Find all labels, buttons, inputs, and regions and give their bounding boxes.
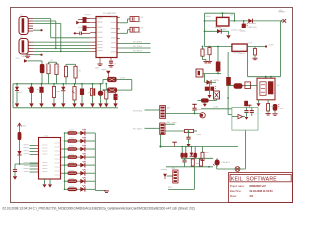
supply VCC arrow <box>16 58 43 63</box>
wire to 3.3V regulator <box>205 46 232 48</box>
resistor R10 <box>18 127 22 140</box>
node X2 unconnected pin <box>33 54 43 56</box>
wire vertical 2 <box>55 21 57 48</box>
svg-text:02.03.2008 11:04:34: 02.03.2008 11:04:34 <box>250 190 274 193</box>
supply +3.3V arrow <box>18 123 26 127</box>
diode D6 <box>217 29 221 34</box>
svg-text:PHL ACT: PHL ACT <box>222 161 231 164</box>
transistor Q7 <box>213 158 231 167</box>
wire SV1 out <box>166 113 200 115</box>
caption <box>3 207 195 211</box>
connector X1 <box>19 14 33 34</box>
resistor R12 <box>185 129 198 132</box>
resistor R14 <box>191 158 194 166</box>
pushbutton S1 <box>235 167 240 172</box>
capacitor C11 <box>207 46 212 63</box>
connector SV1 <box>160 106 171 119</box>
capacitor C2 <box>83 26 91 32</box>
voltage regulator IC4 LM1117 <box>232 42 253 55</box>
ground osc left pin <box>257 100 261 107</box>
capacitor C7 <box>108 61 116 67</box>
jumper JP3 <box>198 98 217 106</box>
capacitor C15 <box>216 46 221 74</box>
svg-text:MCB2300-v47: MCB2300-v47 <box>250 185 267 188</box>
svg-text:P0_RTS1: P0_RTS1 <box>133 51 143 53</box>
wire analog rail A <box>13 80 107 108</box>
wire LED bus right <box>95 133 105 190</box>
svg-text:C7: C7 <box>114 64 116 66</box>
svg-text:+3.3V: +3.3V <box>120 77 126 79</box>
svg-text:02.03.2008 13:04:34 C:\_PROJE: 02.03.2008 13:04:34 C:\_PROJECTS\_MCB230… <box>3 207 195 211</box>
svg-text:P0_TXD0: P0_TXD0 <box>133 129 143 131</box>
capacitor C37 <box>250 107 254 116</box>
wire to IC1 T2OUT <box>33 51 90 53</box>
transistor Q6 <box>184 146 187 158</box>
ground power input <box>226 30 242 39</box>
wire cluster top rail <box>181 157 213 159</box>
wire down long <box>217 130 246 169</box>
capacitor C12 <box>252 47 257 60</box>
svg-text:Q2: Q2 <box>277 85 280 87</box>
wire 3.3V output <box>247 45 274 48</box>
svg-text:R9: R9 <box>79 71 81 73</box>
reed relay K1 <box>228 82 257 89</box>
svg-text:R7: R7 <box>51 60 53 62</box>
capacitor C31 <box>192 104 196 114</box>
oscillator module Q2 <box>257 78 279 100</box>
wire corner to output rail <box>234 13 236 22</box>
wire SV2 out <box>165 130 185 132</box>
wire vertical 1 <box>51 19 90 38</box>
diode D5 <box>243 19 253 24</box>
LED D21 <box>272 104 279 115</box>
wire X1 pin 3 <box>33 23 61 25</box>
svg-text:VCC: VCC <box>16 58 21 60</box>
LED bank D11-D18 with resistors <box>64 129 96 192</box>
svg-text:Project name:: Project name: <box>230 185 245 188</box>
capacitor C35 <box>244 101 248 106</box>
op-amp IC2 driver <box>35 136 61 179</box>
wire regulator top pin <box>222 12 224 17</box>
svg-text:P0_RXD1: P0_RXD1 <box>133 42 143 44</box>
wire power top rail <box>205 12 235 14</box>
node X1 unconnected pin <box>33 29 43 31</box>
wire vertical 3 <box>60 24 62 52</box>
wire cluster bottom rail <box>166 166 213 168</box>
resistor R15 <box>200 158 203 166</box>
wire power left vertical <box>204 13 206 46</box>
wire osc top pins <box>266 76 272 78</box>
crystal Q1 <box>214 91 220 101</box>
svg-text:GND: GND <box>95 68 100 70</box>
svg-text:2/2: 2/2 <box>250 195 254 198</box>
svg-text:P0_TXD1: P0_TXD1 <box>133 46 143 48</box>
wire net RXD1 <box>120 42 151 44</box>
capacitor C23 pair <box>90 83 95 108</box>
buzzer SP1 <box>200 113 205 118</box>
reset module box <box>232 107 258 130</box>
resistor R6 <box>74 64 81 84</box>
wire jumper rail <box>227 97 232 114</box>
resistor R5b <box>64 64 75 84</box>
svg-text:LM1117: LM1117 <box>239 53 247 55</box>
resistor R16 <box>104 83 108 108</box>
wire X2 to IC1 R1IN <box>33 44 90 46</box>
resistor R20 <box>266 100 271 115</box>
wire LED bus left <box>61 133 65 189</box>
connector JP4 <box>172 168 179 183</box>
capacitor C16 <box>226 52 231 98</box>
wire IC2 inputs <box>24 145 36 172</box>
value labels smudges <box>18 15 284 164</box>
connector SV2 <box>160 122 177 134</box>
connector X2 <box>19 37 33 55</box>
op-amp IC1 MAX3232 <box>90 12 120 62</box>
voltage regulator IC3 7805 <box>217 14 235 30</box>
svg-text:P0_RXD0: P0_RXD0 <box>133 110 143 112</box>
wire regulator input <box>205 20 217 22</box>
wire 5V output rail <box>229 20 282 22</box>
svg-text:+3.3V: +3.3V <box>268 45 274 47</box>
transistor Q5 <box>181 146 184 158</box>
title block <box>229 173 293 203</box>
capacitor C22 <box>113 93 117 108</box>
diode D10 <box>17 151 21 164</box>
transistor Q2 <box>28 83 34 108</box>
wire X1 pin 2 <box>33 20 56 22</box>
svg-text:+3.3V: +3.3V <box>213 107 219 109</box>
ground IC2 <box>43 179 53 188</box>
ground LED bank <box>104 190 109 192</box>
wire to reset box <box>201 107 232 109</box>
relay U5 <box>196 69 203 77</box>
svg-text:LM7805: LM7805 <box>219 29 227 31</box>
svg-text:Date/Time:: Date/Time: <box>230 190 242 193</box>
supply VCC +5V <box>279 10 287 23</box>
wire node rail <box>161 146 239 148</box>
wire net TXD1 <box>120 46 151 48</box>
diode D2 <box>61 83 65 108</box>
capacitor C32 <box>186 130 190 147</box>
resistor R13 <box>201 147 204 161</box>
capacitor C33 <box>182 158 186 167</box>
capacitor C36 <box>244 107 248 119</box>
capacitor C20 <box>39 83 43 108</box>
wire ground rail <box>13 107 118 109</box>
wire reset net <box>168 167 195 190</box>
inductor L2 <box>103 80 132 93</box>
diode D1 <box>15 83 19 108</box>
wire input lower rail <box>205 30 229 32</box>
resistor R2 <box>40 61 45 84</box>
svg-text:PWR (5V): PWR (5V) <box>248 27 257 29</box>
diode D22 <box>194 147 197 158</box>
net label RXD0 <box>133 110 160 112</box>
supply bar on rail <box>172 142 176 146</box>
wire bias rail <box>203 73 221 75</box>
ground agnd T <box>102 69 111 77</box>
svg-text:Sheet:: Sheet: <box>230 195 237 198</box>
svg-text:agnd: agnd <box>102 69 106 71</box>
resistor R4 <box>55 62 58 84</box>
capacitor C5 <box>120 17 144 23</box>
svg-text:IC1 MAX3232: IC1 MAX3232 <box>103 12 117 15</box>
wire buffer out <box>243 116 245 118</box>
wire 3V3 stem <box>19 140 21 151</box>
wire net RTS1 <box>120 51 151 53</box>
LED D9 <box>205 81 216 98</box>
capacitor C10 <box>201 46 209 63</box>
svg-text:SV1: SV1 <box>167 107 171 109</box>
inductor L1 <box>107 77 132 82</box>
transistor Q3 <box>98 83 103 108</box>
wire X2 to IC1 R2IN <box>33 41 90 43</box>
wire to IC1 T1OUT <box>33 48 90 50</box>
resistor R3 <box>47 60 57 84</box>
ground below X2 <box>22 54 31 58</box>
wire SV2 down <box>159 134 161 147</box>
resistor R5 <box>52 83 56 108</box>
capacitor C3 <box>74 32 90 36</box>
capacitor C21 <box>80 83 84 108</box>
svg-text:KEIL SOFTWARE: KEIL SOFTWARE <box>231 176 277 182</box>
diode D8 <box>205 74 219 85</box>
wire 3.3V down rail <box>247 47 249 77</box>
wire crystal top rail <box>248 76 281 78</box>
svg-text:BAT54: BAT54 <box>214 79 219 82</box>
net label TXD0 <box>133 128 160 130</box>
wire 3V3 to IC2 <box>15 163 39 165</box>
ground arrow left <box>161 170 173 180</box>
buffer U3 <box>232 105 252 119</box>
potentiometer R11 <box>72 83 77 108</box>
capacitor C1 <box>76 17 90 24</box>
capacitor C30 <box>13 164 17 180</box>
capacitor C6 <box>120 27 144 33</box>
svg-text:DC/DC conv: DC/DC conv <box>231 30 242 32</box>
svg-text:JP4: JP4 <box>172 168 175 170</box>
ground IC1 <box>95 63 103 70</box>
diode D20 <box>190 146 194 157</box>
svg-text:3V3: 3V3 <box>23 125 26 127</box>
wire X1 pin to vertical <box>33 18 51 20</box>
wire 5V down right <box>279 21 281 77</box>
LED PWR <box>241 21 257 33</box>
